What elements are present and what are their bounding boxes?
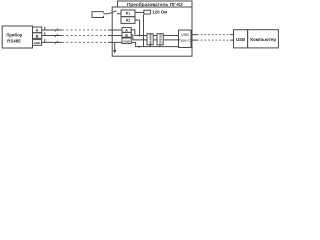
svg-text:MAX485: MAX485 xyxy=(148,33,152,44)
svg-text:USB: USB xyxy=(181,33,189,37)
svg-text:Преобразователь ПГ-К2: Преобразователь ПГ-К2 xyxy=(127,1,183,7)
svg-text:R2: R2 xyxy=(126,18,130,22)
svg-text:Компьютер: Компьютер xyxy=(250,37,276,42)
svg-text:GND: GND xyxy=(123,40,129,44)
svg-text:В: В xyxy=(36,34,39,38)
svg-text:RS485: RS485 xyxy=(7,38,21,43)
svg-text:В: В xyxy=(125,33,128,37)
svg-text:CP2102: CP2102 xyxy=(158,34,162,45)
svg-text:Type-C: Type-C xyxy=(179,39,191,43)
svg-text:GND: GND xyxy=(34,41,42,45)
svg-text:А: А xyxy=(125,29,128,33)
svg-text:USB: USB xyxy=(236,37,245,42)
svg-text:А: А xyxy=(36,29,39,33)
svg-text:Прибор: Прибор xyxy=(6,33,22,38)
svg-text:R1: R1 xyxy=(126,12,130,16)
svg-text:120 Ом: 120 Ом xyxy=(152,10,167,15)
